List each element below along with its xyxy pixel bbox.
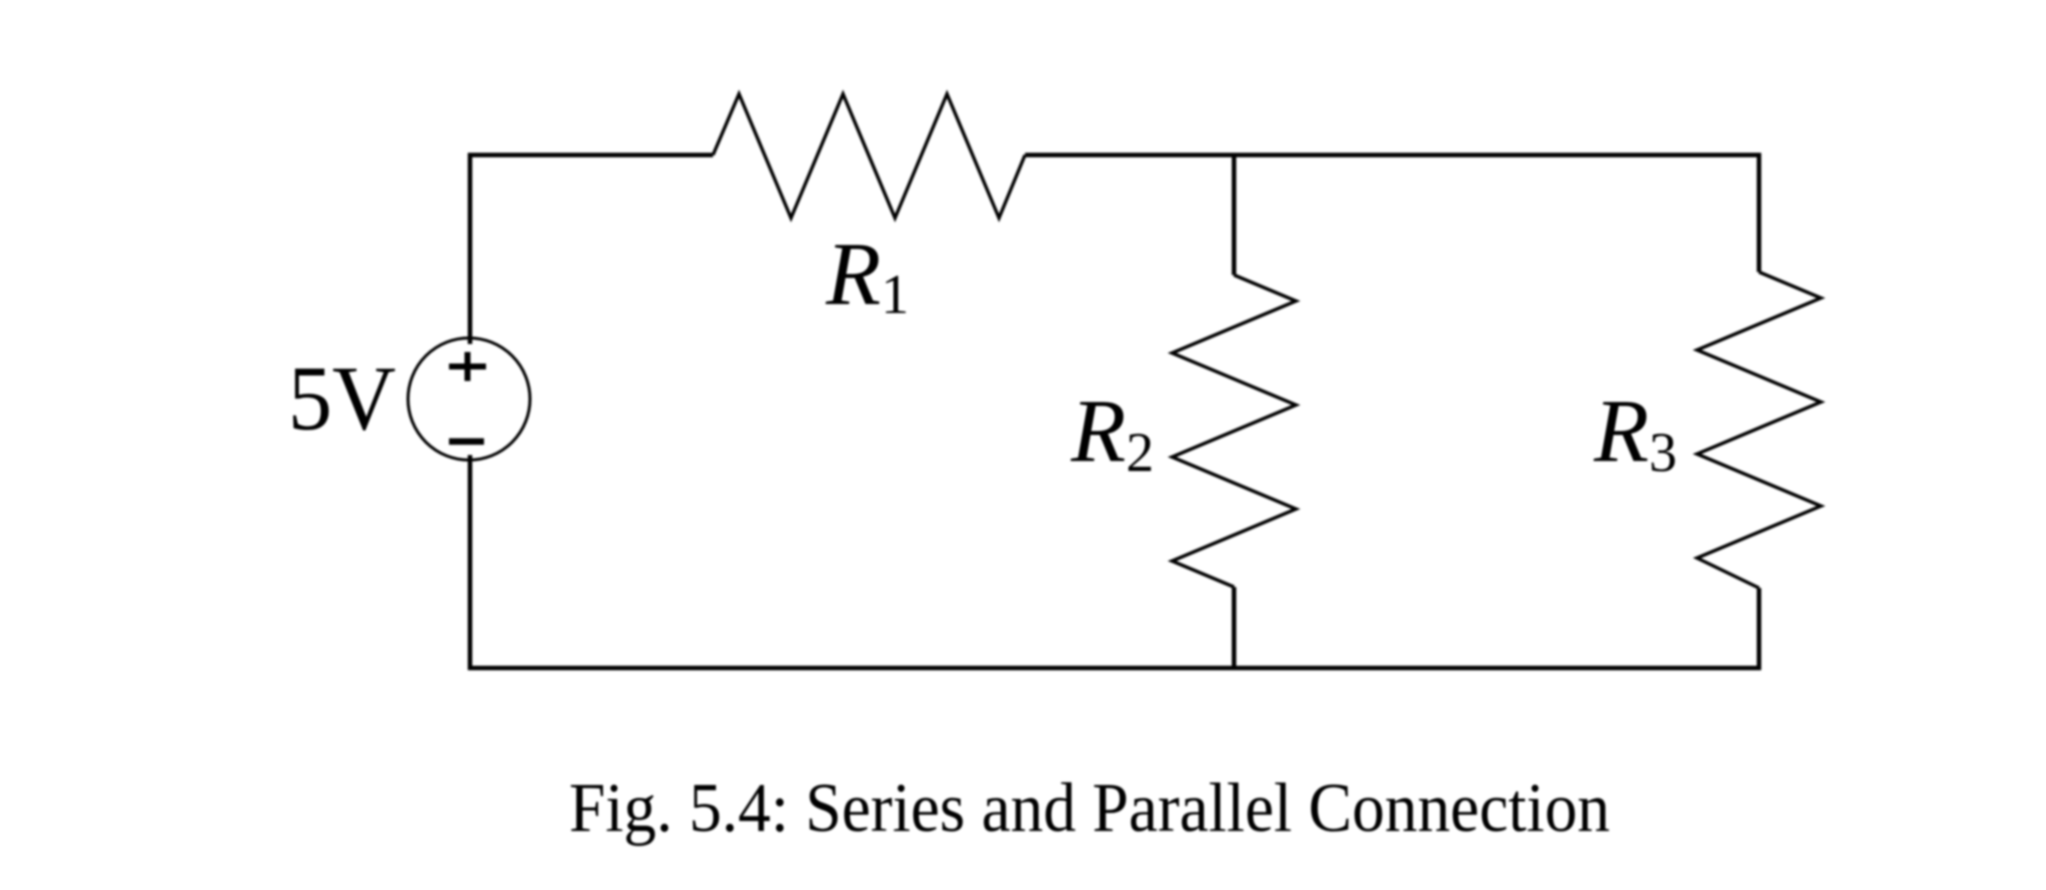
wire R3 top stub (right edge from top wire down to R3)	[1757, 153, 1762, 272]
voltage source V1 (5V)	[408, 338, 530, 460]
wire left vertical lower (source - to bottom wire)	[468, 455, 473, 670]
wire bottom horizontal (ground return)	[468, 666, 1761, 671]
plus terminal mark	[449, 352, 486, 381]
wire top-right horizontal (R1 to node A to R3)	[1025, 153, 1761, 158]
svg-text:5V: 5V	[288, 347, 396, 449]
svg-text:Fig. 5.4: Series and Parallel: Fig. 5.4: Series and Parallel Connection	[569, 770, 1610, 847]
svg-text:R3: R3	[1593, 382, 1677, 484]
wire R2 top stub (node A down to R2)	[1232, 155, 1237, 275]
resistor R3	[1697, 272, 1821, 588]
wire top-left horizontal (source to R1)	[468, 153, 713, 158]
wire left vertical upper (top wire to source +)	[468, 153, 473, 344]
resistor R2	[1172, 275, 1296, 587]
svg-text:R1: R1	[825, 225, 909, 326]
svg-text:R2: R2	[1070, 382, 1154, 484]
resistor R1	[713, 94, 1025, 218]
wire R2 bottom stub (R2 down to bottom wire)	[1232, 587, 1237, 670]
wire R3 bottom stub (R3 down to bottom wire)	[1757, 588, 1762, 670]
minus terminal mark	[449, 438, 484, 445]
